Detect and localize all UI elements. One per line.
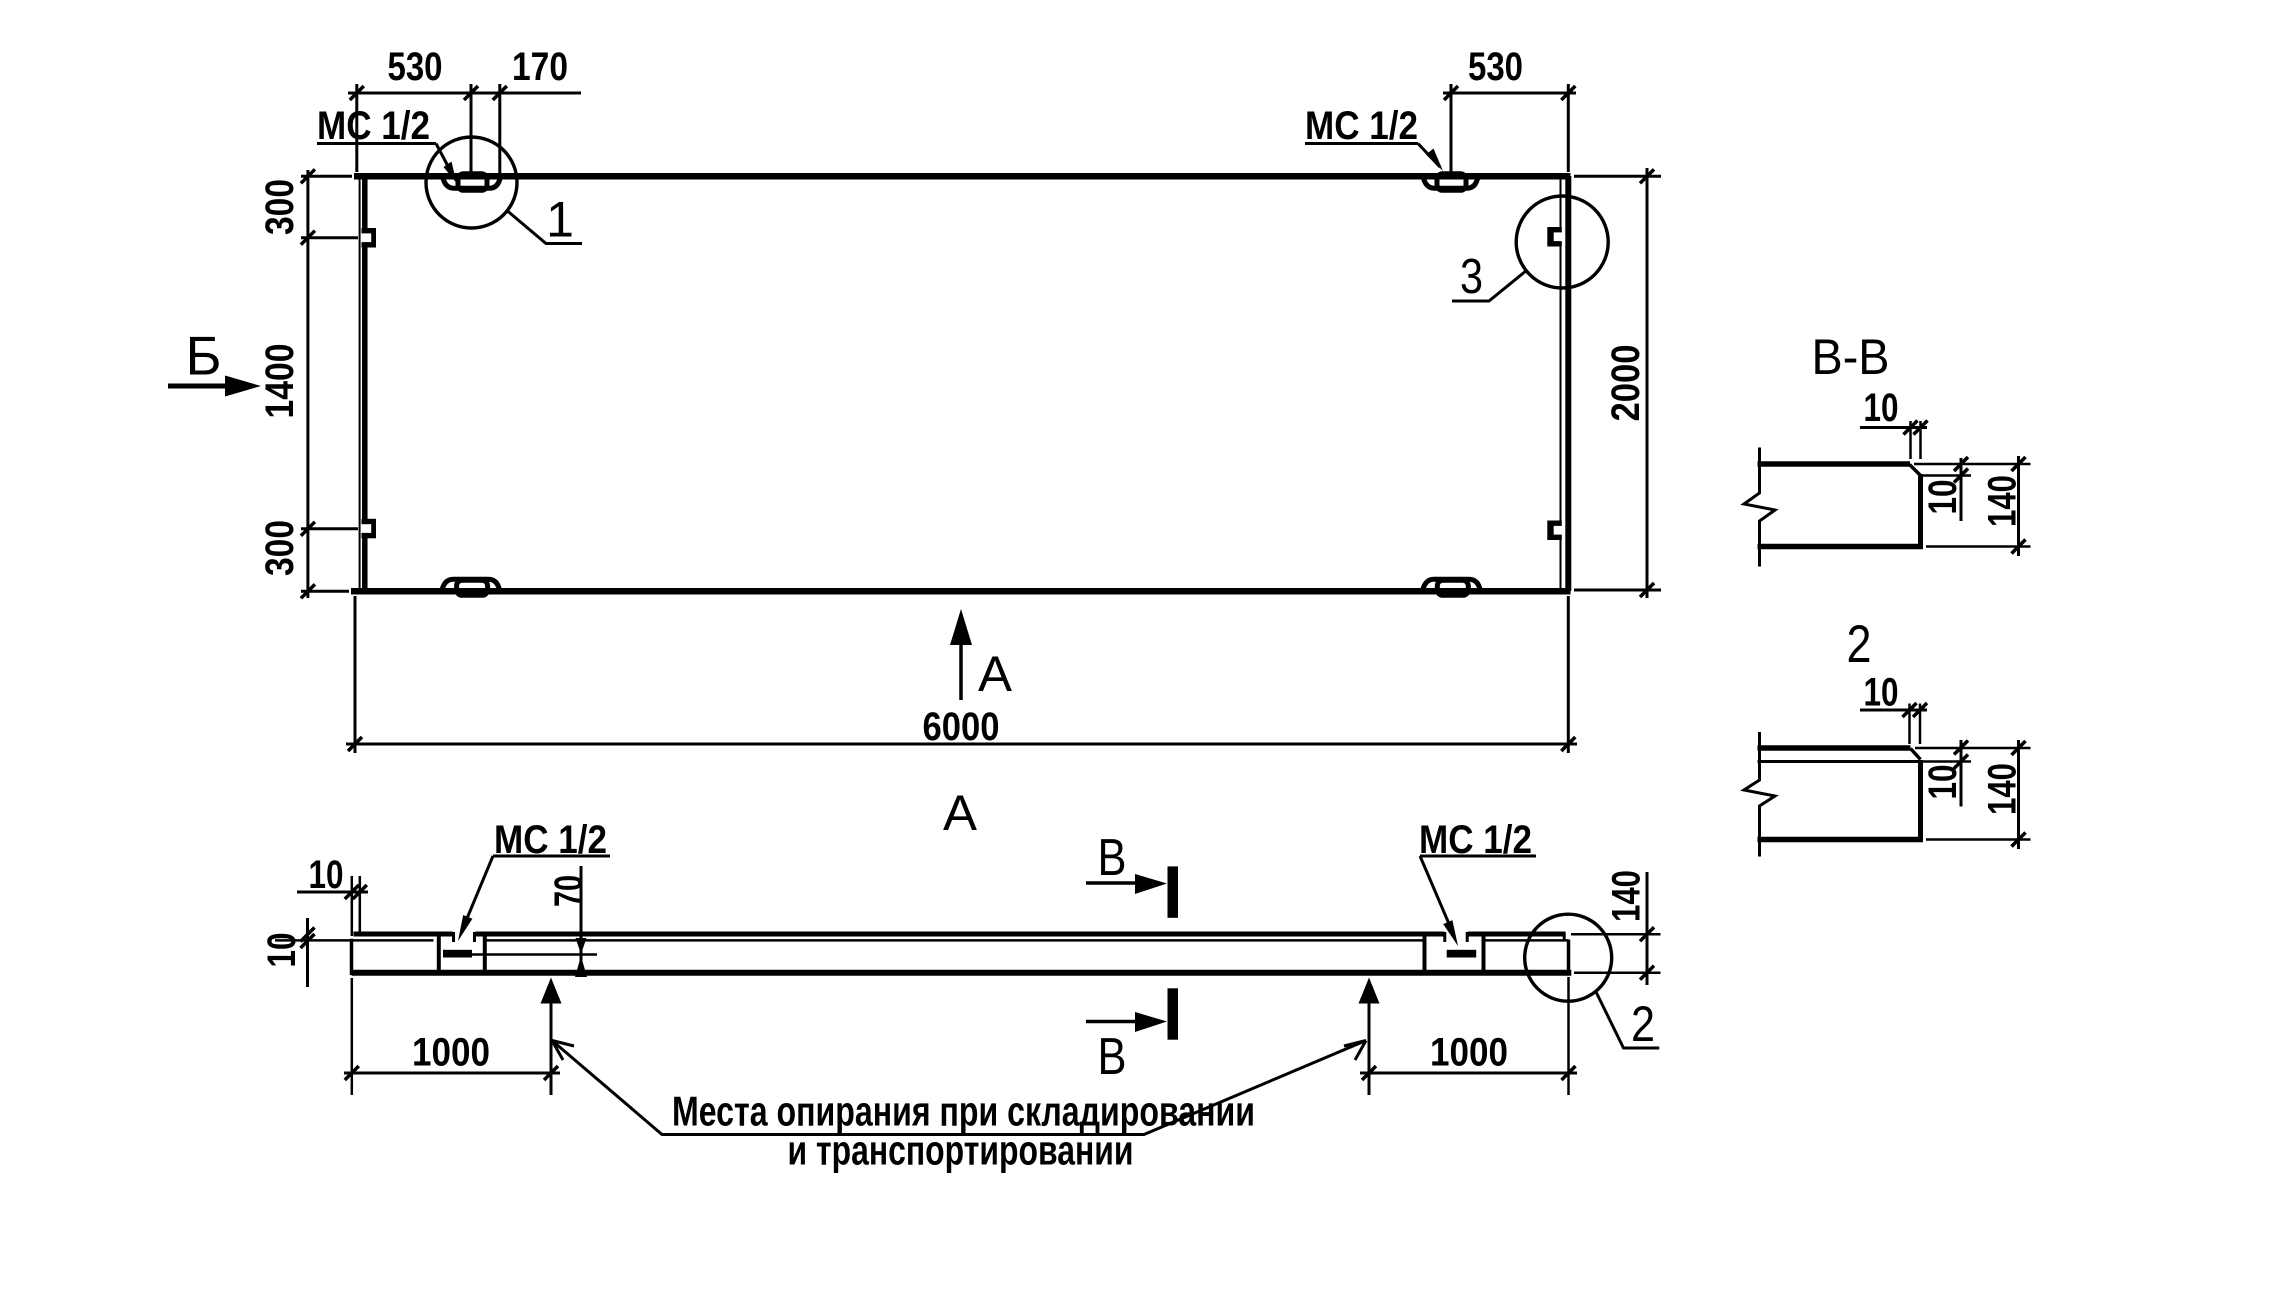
extension right	[1567, 596, 1570, 753]
MC 1/2 label side-left: underline	[493, 855, 610, 858]
detail circle 2	[1525, 914, 1612, 1001]
side: left end face	[350, 939, 354, 975]
lifting recess top-left: U-shaped dip of top edge	[443, 176, 501, 188]
extension left	[354, 596, 357, 753]
svg-text:140: 140	[1981, 475, 2025, 527]
support arrow left	[550, 1000, 553, 1095]
svg-text:МС 1/2: МС 1/2	[494, 818, 607, 862]
svg-text:и транспортировании: и транспортировании	[788, 1127, 1134, 1174]
extension at lower tab	[301, 527, 358, 530]
B-B: chamfer	[1910, 465, 1921, 476]
lifting recess bottom-right: inner loop slot	[1437, 580, 1468, 595]
svg-text:10: 10	[1921, 765, 1965, 800]
svg-text:В-В: В-В	[1812, 329, 1890, 385]
extension: top edge prolongation	[301, 175, 352, 178]
detail 2 leader	[1595, 991, 1659, 1048]
plate left edge thin line	[359, 178, 361, 591]
svg-text:10: 10	[1864, 671, 1899, 715]
B-B dim 10 right	[1960, 458, 1963, 521]
sec2: left break line	[1744, 732, 1775, 857]
side: right end face	[1567, 940, 1571, 976]
svg-text:МС 1/2: МС 1/2	[1419, 818, 1532, 862]
B-B: left break line	[1744, 448, 1775, 567]
left edge joint tab upper	[361, 228, 376, 248]
left edge joint tab lower	[361, 519, 376, 539]
svg-text:2: 2	[1631, 996, 1655, 1052]
MC 1/2 top-left arrowhead	[444, 162, 457, 184]
lifting recess bottom-left: inner loop slot	[457, 580, 488, 595]
side dim 70	[580, 866, 583, 977]
top dim: extension line at recess centre	[470, 84, 473, 177]
sec2: chamfer	[1911, 749, 1921, 760]
svg-text:3: 3	[1460, 250, 1483, 304]
section arrow B (left of plan)	[168, 384, 232, 389]
side: right MC niche walls	[1423, 937, 1427, 971]
MC 1/2 top-right leader	[1418, 144, 1440, 168]
svg-text:А: А	[943, 785, 978, 841]
plate bottom edge	[351, 588, 1571, 595]
svg-text:1000: 1000	[1430, 1031, 1508, 1075]
sec2 dim 10 top	[1860, 709, 1927, 712]
top dim 530/170: dimension line	[348, 92, 581, 95]
sec2: bottom edge	[1758, 837, 1924, 843]
top-right dim 530: dimension line	[1443, 92, 1576, 95]
section mark B upper	[1086, 881, 1145, 885]
side: left MC niche walls	[437, 937, 441, 971]
top dim: extension line at 170	[498, 84, 501, 177]
ticks 2000	[1640, 169, 1654, 183]
side: bottom edge	[352, 970, 1572, 976]
svg-text:МС 1/2: МС 1/2	[1305, 104, 1418, 148]
right edge joint tab lower	[1547, 521, 1564, 541]
side: thin step line segments	[275, 939, 434, 942]
open arrowhead left	[552, 1041, 574, 1061]
tick marks top dim	[350, 86, 364, 100]
plate right edge thin line	[1560, 179, 1562, 589]
detail circle 1	[426, 137, 517, 228]
dim 1000 left	[344, 1072, 560, 1075]
extension: bottom corner prolongation right	[1574, 589, 1661, 592]
plate top edge	[354, 173, 1571, 180]
ticks left dims	[301, 169, 315, 183]
sec2: right edge	[1918, 760, 1923, 842]
side: 70-level line	[472, 953, 597, 956]
bottom dim 6000: dimension line	[346, 743, 1577, 746]
lifting recess bottom-left: hump of bottom edge	[442, 579, 500, 591]
section mark B lower	[1086, 1020, 1145, 1024]
svg-text:А: А	[978, 646, 1013, 702]
dim 1000 right	[1360, 1072, 1577, 1075]
svg-text:140: 140	[1981, 763, 2025, 815]
B-B dim 140	[2017, 456, 2020, 556]
top dim: extension line at plate left corner	[355, 84, 358, 172]
svg-text:140: 140	[1605, 870, 1649, 922]
lifting recess top-right: U-shaped dip of top edge	[1423, 176, 1478, 188]
open arrowhead right	[1344, 1041, 1366, 1061]
svg-text:Б: Б	[185, 325, 221, 387]
svg-text:300: 300	[258, 520, 302, 576]
detail 1 leader	[508, 211, 583, 244]
B-B dim 10 top	[1860, 426, 1927, 429]
svg-text:2000: 2000	[1604, 345, 1648, 422]
view arrow A (below plan)	[959, 638, 963, 700]
MC 1/2 label side-right: underline	[1420, 855, 1536, 858]
MC 1/2 label top-left: underline	[317, 142, 436, 145]
svg-text:МС 1/2: МС 1/2	[317, 104, 430, 148]
side dim 140 (right)	[1646, 872, 1649, 985]
side: right MC loop bar	[1447, 950, 1477, 958]
ticks 6000	[348, 737, 362, 751]
svg-text:10: 10	[1864, 386, 1899, 430]
svg-text:10: 10	[1921, 480, 1965, 515]
side dim 10 horizontal (left top)	[297, 891, 368, 894]
sec2: step thin line	[1758, 760, 1921, 763]
tick marks right 530	[1444, 86, 1458, 100]
side dim 10 vertical (far left)	[306, 918, 309, 987]
svg-text:1: 1	[546, 192, 574, 248]
side: left MC loop bar	[443, 950, 472, 958]
svg-text:530: 530	[388, 45, 443, 89]
sec2 dim 140	[2017, 740, 2020, 849]
svg-text:10: 10	[309, 853, 344, 897]
svg-text:170: 170	[512, 45, 568, 89]
extension at upper tab	[301, 236, 358, 239]
svg-text:В: В	[1098, 1028, 1127, 1086]
left dims 300/1400/300: dimension line	[306, 170, 309, 598]
svg-text:2: 2	[1847, 615, 1872, 674]
extension line at plate right corner	[1567, 84, 1570, 172]
plate left edge thick line	[362, 179, 368, 590]
B-B: top edge	[1758, 461, 1911, 467]
support note leader	[552, 1041, 1366, 1135]
side: top edge segments	[354, 932, 453, 937]
side: right end step vertical	[1563, 933, 1566, 942]
detail 3 leader	[1452, 270, 1527, 301]
extension: bottom edge prolongation	[301, 590, 349, 593]
MC 1/2 label top-right: underline	[1305, 142, 1418, 145]
svg-text:70: 70	[547, 875, 591, 907]
sec2: top edge	[1758, 745, 1911, 751]
svg-text:10: 10	[260, 933, 304, 968]
lifting recess top-right: inner loop slot	[1437, 174, 1466, 191]
MC 1/2 top-right arrowhead	[1426, 149, 1443, 172]
lifting recess bottom-right: hump of bottom edge	[1422, 579, 1480, 591]
B-B: right edge	[1918, 474, 1923, 549]
svg-text:1400: 1400	[258, 344, 302, 419]
extension: top edge prolongation right	[1574, 175, 1661, 178]
B-B: bottom edge	[1758, 544, 1924, 550]
sec2 dim 10 right	[1960, 740, 1963, 807]
svg-text:530: 530	[1468, 45, 1523, 89]
right dim 2000: dimension line	[1646, 168, 1649, 598]
right edge joint tab upper	[1547, 227, 1564, 247]
plate right edge thick line	[1565, 176, 1571, 591]
svg-text:1000: 1000	[412, 1031, 490, 1075]
side: right MC gap walls	[1443, 932, 1446, 942]
svg-text:6000: 6000	[923, 705, 1000, 749]
detail circle 3	[1516, 196, 1608, 288]
svg-text:300: 300	[258, 179, 302, 235]
lifting recess top-left: inner loop slot	[458, 174, 487, 191]
MC 1/2 top-left leader	[436, 144, 450, 171]
svg-text:В: В	[1098, 829, 1127, 887]
support arrow right	[1368, 1000, 1371, 1095]
extension line at right recess centre	[1450, 84, 1453, 177]
side: left MC gap walls	[452, 932, 455, 942]
